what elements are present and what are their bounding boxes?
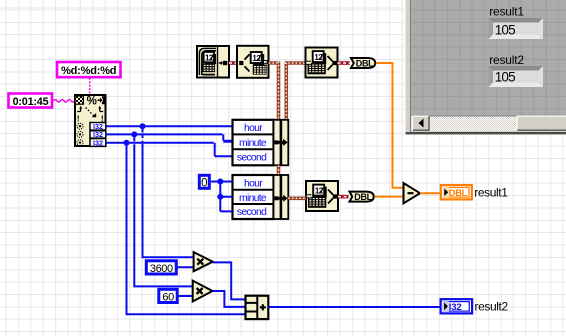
svg-text:minute: minute: [239, 193, 267, 204]
wire cluster bundle2 to icon4 (brown dotted): [288, 197, 306, 201]
wire add to result2 terminal (blue): [268, 306, 440, 308]
junction dot minute: [131, 131, 137, 137]
wire DBL2 to subtract (orange): [375, 196, 404, 198]
horizontal scrollbar (panel): [411, 116, 566, 131]
icon Seconds To Date/Time: [237, 46, 269, 78]
svg-text:DBL: DBL: [356, 59, 374, 69]
wire minute branch vertical to multiply2: [133, 134, 192, 286]
front panel window: [404, 0, 566, 135]
wire DBL1 to subtract (orange): [376, 63, 404, 188]
svg-text:second: second: [237, 207, 267, 218]
terminal result2 (I32 indicator): [441, 299, 473, 313]
wire string 0:01:45 to Scan From String (squiggle): [54, 100, 75, 102]
wire hour (blue) scan out 1 to bundle1: [106, 125, 233, 127]
svg-text:result1: result1: [489, 5, 524, 19]
svg-text:%d:%d:%d: %d:%d:%d: [61, 65, 116, 77]
icon Date/Time To Seconds (bottom): [306, 181, 338, 211]
numeric constant 3600: [146, 261, 176, 275]
Bundle By Name node 2 (hour minute second): [233, 175, 289, 219]
compound arithmetic add node: [246, 296, 269, 319]
junction dot 0 wire a: [217, 179, 223, 185]
icon Date/Time To Seconds (top): [306, 48, 338, 78]
Scan From String node: [75, 95, 106, 147]
multiply node 2: [193, 281, 213, 302]
svg-text:result2: result2: [475, 300, 509, 314]
numeric indicator result1 value 105: [489, 18, 544, 39]
numeric constant 60: [159, 289, 177, 303]
svg-text:result1: result1: [474, 186, 508, 200]
wire 3600 to multiply1: [177, 266, 194, 268]
wire cluster bundle1 to bundle2 (brown dotted vertical): [277, 166, 281, 176]
junction dot 0 wire b: [217, 194, 223, 200]
numeric indicator result2 value 105: [489, 66, 544, 87]
svg-text:DBL: DBL: [354, 192, 372, 202]
Bundle By Name node 1 (hour minute second): [233, 120, 289, 166]
junction dot second: [124, 140, 130, 146]
wire multiply2 to add row2 (blue): [213, 291, 246, 307]
svg-text:I32: I32: [449, 302, 462, 313]
wire second branch vertical to add node: [126, 143, 246, 314]
svg-text:105: 105: [495, 22, 515, 37]
svg-text:minute: minute: [239, 138, 267, 149]
svg-text:DBL: DBL: [449, 188, 468, 198]
svg-text:result2: result2: [489, 53, 524, 67]
wire timestamp icon3 to DBL1: [338, 61, 351, 65]
numeric constant 0: [199, 175, 209, 189]
wire multiply1 to add row1 (blue): [213, 262, 246, 299]
string constant "%d:%d:%d": [57, 62, 121, 77]
svg-text:I32: I32: [93, 138, 103, 147]
svg-text:hour: hour: [244, 178, 263, 189]
To Double Precision conversion DBL (top): [351, 58, 375, 69]
svg-text:60: 60: [162, 291, 174, 303]
icon Get Date/Time In Seconds: [197, 46, 229, 78]
wire 0 to bundle2 hour/minute/second: [211, 182, 233, 212]
svg-text:%: %: [87, 96, 97, 108]
wire string %d:%d:%d to Scan From String (dotted magenta): [89, 78, 91, 94]
wire timestamp icon1 to icon2 (dark red dashed): [229, 61, 237, 65]
wire 60 to multiply2: [178, 295, 193, 297]
wire timestamp icon4 to DBL2: [338, 195, 349, 199]
wire subtract to result1 terminal (orange): [420, 192, 441, 194]
wire cluster bundle1 out up to icon3 (brown dotted, L up): [285, 63, 306, 120]
terminal result1 (DBL indicator): [441, 185, 472, 199]
svg-text:second: second: [237, 153, 267, 164]
wire second (blue) scan out 3 to bundle1: [106, 143, 233, 156]
svg-text:105: 105: [495, 70, 515, 85]
wire minute (blue) scan out 2 to bundle1: [106, 134, 233, 141]
svg-text:hour: hour: [244, 123, 263, 134]
junction dot hour: [140, 123, 146, 129]
wire hour branch vertical to multiply1: [142, 126, 144, 129]
string constant "0:01:45": [9, 94, 53, 108]
To Double Precision conversion DBL (bottom): [350, 192, 374, 203]
wire cluster icon2 to bundle1 (brown dotted, L down): [269, 61, 279, 119]
subtract node: [404, 183, 421, 203]
svg-text:0: 0: [201, 177, 207, 189]
multiply node 1: [194, 252, 213, 271]
svg-text:3600: 3600: [150, 263, 173, 275]
svg-text:!: !: [77, 113, 80, 123]
svg-text:0:01:45: 0:01:45: [13, 96, 49, 108]
